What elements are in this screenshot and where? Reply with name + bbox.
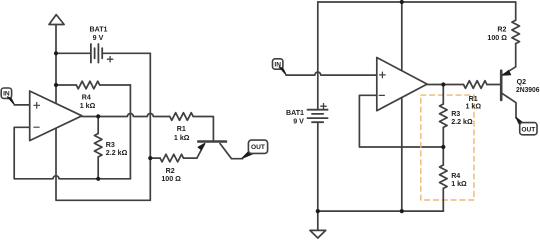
terminal flag OUT (right) tail: [516, 117, 524, 126]
wire battery BAT1 left lead: [56, 52, 90, 54]
transistor Q2 emitter arrow (right): [503, 70, 511, 75]
svg-text:9 V: 9 V: [293, 118, 304, 126]
op-amp U2 (right): [377, 58, 427, 111]
svg-text:2.2 kΩ: 2.2 kΩ: [106, 149, 128, 157]
wire - input feedback loop (right): [359, 95, 443, 147]
transistor Q1 emitter arrow (left): [198, 143, 205, 150]
wire R4 right vertical down to feedback node: [129, 85, 131, 179]
wire R1 right to transistor base: [193, 117, 213, 141]
op-amp U1 (left): [30, 91, 82, 141]
resistor R2 (left) body: [160, 154, 183, 162]
wire rail down to R2 (right): [515, 2, 517, 20]
resistor R4 (left) lead right: [100, 84, 131, 86]
wire IN to op-amp + input: [14, 104, 30, 106]
resistor R1 (left) body: [170, 113, 193, 121]
svg-text:BAT1: BAT1: [90, 26, 108, 34]
dashed group box around R3 and R4: [421, 95, 474, 200]
node V+ rail junction (right): [400, 0, 404, 4]
svg-text:100 Ω: 100 Ω: [161, 175, 181, 183]
battery BAT1 plus sign (left): [107, 57, 112, 62]
node output / R3 top junction (right): [441, 82, 445, 86]
resistor R4 (right) lead top: [442, 147, 444, 165]
resistor R3 (left) body: [94, 134, 102, 157]
resistor R3 (right) lead top: [442, 85, 444, 105]
transistor Q1 emitter (left): [197, 144, 205, 158]
op-amp U1 minus input marking: [34, 126, 39, 128]
node R3 top / output junction (left): [96, 114, 100, 118]
wire op-amp V+ pin (right): [401, 2, 403, 71]
wire bottom rail (right): [318, 210, 444, 212]
terminal flag IN (right) box: [273, 59, 283, 69]
svg-text:R4: R4: [82, 94, 91, 102]
battery BAT1 plus sign (right): [321, 104, 326, 109]
resistor R4 (left) lead left: [56, 84, 76, 86]
wire op-amp V- pin down to bottom rail (right): [401, 98, 403, 212]
resistor R3 (left) lead bottom: [97, 157, 99, 179]
svg-text:IN: IN: [274, 61, 281, 68]
terminal flag IN (left) box: [1, 88, 11, 98]
resistor R4 (right) body: [440, 165, 448, 188]
terminal flag OUT (left) box: [248, 140, 267, 153]
terminal flag OUT (right) box: [520, 123, 537, 135]
svg-text:100 Ω: 100 Ω: [487, 34, 507, 42]
svg-text:2N3906: 2N3906: [516, 86, 540, 94]
wire op-amp output (hops over two verticals): [82, 114, 170, 117]
svg-text:BAT1: BAT1: [286, 109, 304, 117]
power flag VCC (left circuit): [49, 15, 64, 25]
wire op-amp output to R1 (right): [427, 84, 463, 86]
svg-text:R3: R3: [451, 110, 460, 118]
transistor Q1 base bar (left): [198, 140, 226, 143]
node R4 left / power rail junction (left): [54, 83, 58, 87]
wire battery right lead over to negative rail: [103, 52, 150, 54]
resistor R3 (right) lead bottom: [442, 127, 444, 147]
svg-text:2.2 kΩ: 2.2 kΩ: [451, 118, 473, 126]
svg-text:R2: R2: [497, 26, 506, 34]
terminal flag IN (right) tail: [279, 67, 286, 75]
svg-text:1 kΩ: 1 kΩ: [451, 180, 467, 188]
ground symbol: [310, 230, 326, 238]
resistor R2 (right) body: [512, 20, 520, 43]
transistor Q2 emitter (right): [502, 67, 516, 76]
resistor R2 (left) lead left: [150, 157, 160, 159]
transistor Q1 collector (left): [220, 144, 243, 159]
wire battery to ground (right): [317, 122, 319, 230]
wire R2 bottom to Q2 emitter (right): [515, 44, 517, 67]
resistor R1 (right) body: [464, 81, 487, 89]
svg-text:R1: R1: [177, 125, 186, 133]
svg-text:1 kΩ: 1 kΩ: [466, 102, 482, 110]
svg-text:IN: IN: [3, 91, 10, 98]
transistor Q2 collector (right): [502, 93, 516, 118]
node R3 / R4 / feedback junction (right): [441, 145, 445, 149]
svg-text:1 kΩ: 1 kΩ: [174, 134, 190, 142]
wire IN to op-amp + input (hops over battery rail): [286, 72, 377, 75]
transistor Q2 base bar (right): [500, 71, 503, 100]
svg-text:1 kΩ: 1 kΩ: [80, 102, 96, 110]
svg-text:OUT: OUT: [251, 144, 265, 151]
wire rail down to battery (right): [317, 2, 319, 110]
svg-text:Q2: Q2: [517, 78, 527, 86]
wire negative rail vertical (battery right, down): [149, 53, 151, 200]
battery BAT1 (left): [91, 44, 102, 63]
node R2 left / negative rail junction (left): [148, 156, 152, 160]
node battery / bottom rail junction (right): [316, 209, 320, 213]
op-amp U1 plus input marking: [34, 103, 40, 109]
node V- / bottom rail junction (right): [400, 209, 404, 213]
battery BAT1 (right): [308, 110, 328, 123]
wire power rail from VCC flag down to op-amp V+ pin: [55, 25, 57, 104]
resistor R3 (right) body: [440, 104, 448, 127]
node R3 bottom / feedback junction (left): [96, 177, 100, 181]
wire R1 to Q2 base (right): [487, 84, 500, 86]
svg-text:9 V: 9 V: [93, 34, 104, 42]
resistor R4 (right) lead bottom to rail: [442, 188, 444, 211]
node battery left / power rail junction (left): [54, 51, 58, 55]
wire top rail (right circuit): [318, 1, 516, 3]
terminal flag IN (left) tail: [7, 97, 14, 105]
op-amp U2 minus input marking: [379, 94, 384, 96]
svg-text:R3: R3: [106, 141, 115, 149]
svg-text:R2: R2: [166, 167, 175, 175]
terminal flag OUT (left) tail: [242, 150, 253, 158]
wire op-amp - input feedback down: [14, 127, 30, 179]
svg-text:R4: R4: [451, 172, 460, 180]
op-amp U2 plus input marking: [380, 72, 386, 78]
wire bottom return to op-amp V- pin: [56, 128, 150, 200]
resistor R4 (left) body: [76, 81, 99, 89]
wire feedback bottom (hops over V- pin wire): [14, 176, 130, 179]
resistor R3 (left) lead top: [97, 116, 99, 133]
svg-text:OUT: OUT: [521, 127, 535, 134]
resistor R2 (left) lead right to emitter: [184, 157, 197, 159]
